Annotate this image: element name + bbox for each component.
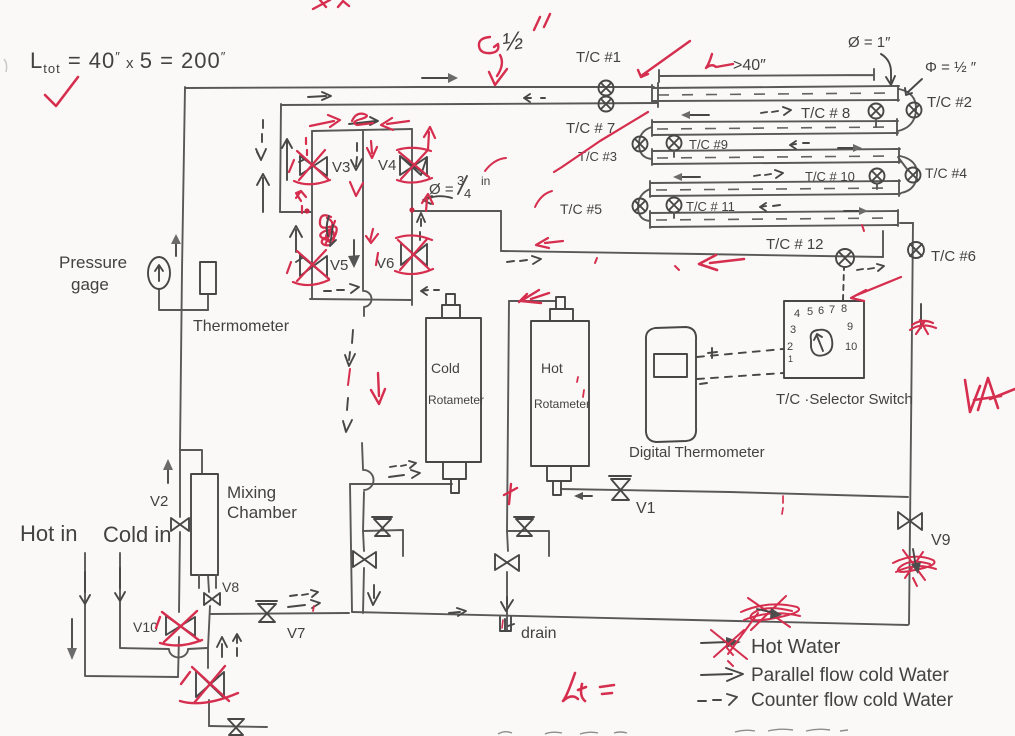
label Digital Thermometer (629, 444, 765, 461)
dashed link thermometer plus (697, 348, 783, 358)
red V mark center (350, 182, 363, 196)
svg-text:V10: V10 (133, 619, 158, 635)
heat exchanger tube 5 (650, 210, 898, 228)
svg-text:T/C #5: T/C #5 (560, 201, 602, 217)
red VA mark (965, 378, 1015, 412)
label drain (521, 625, 557, 642)
legend counter arrow dashed (698, 694, 737, 705)
valve V8 (204, 593, 220, 605)
legend parallel arrow (701, 668, 743, 681)
feed pipe arrow into tube1 (881, 54, 895, 85)
red tick below V1 line (782, 496, 783, 514)
red L of 40 inch (706, 54, 733, 68)
svg-text:8: 8 (841, 303, 847, 315)
arrow tube row2 right gray (838, 144, 862, 152)
U-bend right tube1-tube2 (898, 89, 916, 131)
svg-text:V8: V8 (222, 579, 239, 595)
svg-text:Rotameter: Rotameter (428, 393, 484, 407)
red up arrow right rail lower (422, 194, 433, 211)
wire manifold bottom (310, 299, 412, 300)
wire right main vertical (909, 223, 913, 624)
svg-text:4: 4 (794, 308, 800, 320)
wire thermometer stub (207, 294, 209, 310)
red tick V7 area none (313, 606, 314, 611)
arrow inner top flow right (308, 92, 331, 100)
legend label Parallel flow (751, 665, 949, 686)
wire bottom main horizontal (352, 612, 908, 625)
arrow tube row3 dashed right (754, 170, 783, 178)
valve V5 (296, 255, 327, 277)
arrow up small left of manifold (282, 139, 292, 180)
wire hot drain column (507, 301, 509, 630)
dashed link thermometer minus (697, 373, 783, 384)
wire manifold top (312, 129, 412, 131)
svg-text:>40″: >40″ (733, 57, 766, 74)
wire pressure gage link (159, 289, 208, 310)
valve below V10 crossed (196, 671, 224, 698)
svg-text:V1: V1 (636, 500, 656, 517)
thermocouple T/C #5 (633, 199, 648, 214)
legend label Counter flow (751, 690, 954, 711)
svg-text:T/C # 7: T/C # 7 (566, 120, 615, 137)
arrow tube row1 left gray (681, 111, 709, 119)
arrow tube row4 right gray (844, 207, 868, 215)
red scribble over V9 (893, 549, 936, 586)
svg-text:Hot in: Hot in (20, 521, 77, 546)
svg-text:Counter flow cold Water: Counter flow cold Water (751, 690, 954, 711)
svg-text:T/C #4: T/C #4 (925, 165, 967, 181)
red X over lower valve (180, 666, 238, 703)
wire V7 line (210, 613, 349, 614)
red coil scribble (320, 215, 337, 246)
svg-text:V3: V3 (332, 159, 350, 176)
thermocouple T/C #6 (908, 242, 924, 258)
thermocouple T/C #9 (667, 136, 682, 158)
U-bend left tube4-tube5 (638, 189, 650, 221)
label Thermometer (193, 318, 290, 335)
pressure gage (148, 257, 170, 289)
wire cold column lower (363, 531, 364, 613)
wire outer top horizontal (186, 87, 654, 88)
arrow head hot in (80, 572, 90, 604)
svg-text:Cold: Cold (431, 360, 460, 376)
red dashes left rail top (306, 138, 307, 155)
selector knob (811, 330, 833, 356)
red arc mid right (535, 191, 552, 207)
arrow right bottom main (449, 608, 466, 616)
svg-text:V4: V4 (378, 157, 396, 174)
label T/C #2 (927, 94, 972, 111)
label T/C #9 (689, 137, 728, 152)
left edge smudge (4, 59, 7, 72)
valve hot column (495, 554, 519, 571)
svg-text:2: 2 (787, 341, 793, 353)
arrow head cold in (115, 568, 125, 601)
svg-text:Parallel flow cold Water: Parallel flow cold Water (751, 665, 949, 686)
red slash near T/C 1 (638, 41, 690, 77)
wire manifold left rail (311, 131, 313, 299)
valve V7 (256, 601, 277, 622)
red half inch annotation (479, 14, 550, 85)
hot rotameter (531, 297, 589, 495)
red arrows manifold top (310, 114, 409, 130)
dashed arrow V7 (288, 590, 320, 608)
cold rotameter (426, 294, 481, 493)
svg-text:1: 1 (788, 354, 793, 364)
red dot mid return (675, 266, 679, 270)
red X marks top edge (313, 0, 349, 9)
valve V10 (166, 616, 195, 636)
svg-text:V7: V7 (287, 625, 305, 642)
arrow down center manifold top (351, 143, 362, 170)
wire manifold right rail (411, 129, 413, 305)
svg-text:4: 4 (464, 186, 471, 201)
wire return riser vertical (500, 211, 502, 251)
arrow tube row1 dashed right T/C 8 (761, 107, 791, 115)
label Mixing Chamber (227, 483, 297, 522)
wire inner left vertical (280, 104, 281, 212)
svg-text:T/C #2: T/C #2 (927, 94, 972, 111)
valve cold column (353, 551, 376, 568)
wire link to manifold (280, 211, 312, 213)
svg-text:V5: V5 (330, 257, 348, 274)
thermocouple T/C #1 (599, 81, 614, 96)
red X over V5 (287, 250, 329, 285)
svg-text:T/C #1: T/C #1 (576, 49, 621, 66)
dashed down arrows center column (343, 330, 355, 432)
label Cold in (103, 522, 171, 547)
arrow inner top flow left with dash (524, 94, 545, 102)
valve V2 (171, 518, 189, 531)
wire cold column branch (363, 530, 403, 556)
svg-text:Thermometer: Thermometer (193, 318, 290, 335)
dashed arrow manifold bottom (324, 284, 359, 293)
label T/C #3 (578, 149, 617, 164)
dimension line L=40 (659, 69, 874, 82)
wire hot in line (85, 553, 178, 677)
digital thermometer (646, 327, 696, 442)
svg-text:T/C # 12: T/C # 12 (766, 236, 824, 253)
arrow tube row2 left dashed (790, 141, 809, 149)
label T/C #10 (805, 169, 855, 184)
svg-text:3: 3 (790, 324, 796, 336)
valve V1 (609, 476, 631, 500)
red arc near return riser top (485, 158, 506, 171)
label diameter half inch (925, 59, 977, 76)
red scribble bottom line (741, 596, 800, 630)
dashed arrow below return line (507, 256, 541, 264)
arrow dashed down left of manifold (256, 120, 266, 160)
label V1 (636, 500, 656, 517)
red tick tube5 right (862, 225, 864, 231)
label V3 (332, 159, 350, 176)
selector dashed link to T/C 12 (843, 268, 844, 300)
svg-text:in: in (481, 174, 490, 188)
arrows up chamber outlet (217, 634, 241, 657)
dashed arrow right of T/C 12 (857, 264, 884, 271)
svg-text:Hot: Hot (541, 360, 563, 376)
red left arrow on return line big (699, 255, 744, 270)
red marks center column mid (366, 229, 378, 265)
wire bottom left stub (209, 726, 267, 727)
red check top left (45, 77, 78, 106)
label V6 (376, 255, 394, 272)
red X over V10 (156, 611, 202, 645)
label T/C #6 (931, 248, 976, 265)
svg-text:T/C # 10: T/C # 10 (805, 169, 855, 184)
label T/C #12 (766, 236, 824, 253)
thermocouple T/C #11 (667, 198, 682, 219)
red tick near return (595, 258, 597, 263)
wire manifold to return riser (412, 210, 501, 212)
arrow down cold column (368, 585, 380, 605)
U-bend right tube3-tube4 (900, 156, 917, 193)
label T/C #1 (576, 49, 621, 66)
label diameter 1 inch (848, 34, 891, 51)
svg-text:T/C # 8: T/C # 8 (801, 105, 850, 122)
arrow tube row4 left dashed (760, 203, 780, 211)
thermocouple T/C #2 (907, 103, 922, 118)
red up arrow right of V4 (424, 127, 435, 150)
red junction dots (304, 207, 414, 213)
red slash T/C 7 and 3 (554, 112, 648, 172)
arrow up main left line (171, 234, 181, 256)
label V10 (133, 619, 158, 635)
valve hot branch (514, 517, 534, 536)
svg-text:Rotameter: Rotameter (534, 397, 590, 411)
wire outer left vertical (180, 87, 185, 450)
arrow up left rail lower (290, 226, 302, 252)
heat exchanger tube 4 (650, 180, 900, 197)
wire cold loop top horizontal (350, 483, 452, 485)
arrow up chamber inlet (163, 459, 173, 483)
thermocouple T/C #10 (870, 169, 885, 190)
arrow down hot column (501, 597, 513, 611)
red tick left column (348, 369, 350, 385)
arrow left below V6 with dash (421, 287, 439, 295)
label Cold Rotameter (428, 360, 484, 407)
label Hot Rotameter (534, 360, 590, 411)
arrow tube row3 left gray (673, 173, 700, 181)
red arrow to selector box (851, 277, 901, 301)
wire V1 line (561, 489, 908, 497)
pointer to rail three quarter (423, 196, 452, 204)
label T/C #4 (925, 165, 967, 181)
wire hot rotameter inlet (509, 300, 556, 302)
red ticks in hot rotameter (577, 377, 584, 397)
label T/C #7 (566, 120, 615, 137)
wire tube5 outlet drop (882, 231, 884, 257)
drain fitting (500, 617, 514, 631)
thermocouple T/C #8 (869, 104, 884, 128)
wire cold loop left vertical (350, 484, 352, 612)
dashed arrow cold loop inlet (389, 461, 420, 478)
wire inner top horizontal (281, 103, 658, 105)
svg-text:drain: drain (521, 625, 557, 642)
svg-text:Digital Thermometer: Digital Thermometer (629, 444, 765, 461)
label V5 (330, 257, 348, 274)
red mark near hot column top (504, 484, 517, 504)
thermocouple T/C #3 (633, 137, 648, 152)
label T/C Selector Switch (776, 391, 913, 408)
wire main left lower through V2 V10 (178, 450, 180, 677)
valve V3 (299, 156, 327, 176)
wire cold in line with hop (120, 553, 207, 657)
legend label Hot Water (751, 636, 841, 658)
red arrow hot rotameter top (519, 290, 549, 303)
wire cold column upper with hop (362, 443, 374, 531)
label V7 (287, 625, 305, 642)
wire chamber inlet top (180, 450, 202, 474)
label Hot in (20, 521, 77, 546)
T/C selector switch box (784, 301, 864, 378)
svg-text:V2: V2 (150, 493, 168, 510)
red X over V3 (289, 150, 330, 184)
red X over V6 (395, 235, 433, 274)
svg-text:Chamber: Chamber (227, 503, 297, 522)
svg-text:Ø = 1″: Ø = 1″ (848, 34, 891, 51)
arrow top flow right (422, 73, 458, 83)
valve V4 (400, 156, 427, 176)
thermometer body (200, 262, 216, 294)
svg-text:½: ½ (500, 26, 525, 57)
label L greater 40 inch (733, 57, 766, 74)
label diameter three quarter (429, 173, 490, 201)
svg-text:T/C #6: T/C #6 (931, 248, 976, 265)
valve bottom edge (228, 719, 244, 735)
red left arrow above return line (536, 238, 563, 248)
label V9 (931, 532, 951, 549)
red slash through legend arrow (711, 613, 758, 666)
valve cold branch (372, 517, 392, 536)
thermocouple T/C #12 (836, 249, 854, 267)
arrow up big left of manifold (257, 174, 269, 212)
bottom cut text strokes (498, 729, 848, 734)
selector numbers (787, 303, 857, 364)
red X over V4 (397, 148, 432, 183)
legend hot water arrow (701, 637, 741, 648)
label T/C #8 (801, 105, 850, 122)
svg-text:6: 6 (818, 305, 824, 317)
svg-text:gage: gage (71, 275, 109, 294)
label Ltot formula (30, 48, 226, 76)
svg-text:T/C ·Selector Switch: T/C ·Selector Switch (776, 391, 913, 408)
red dashed up arrow left rail (296, 191, 306, 213)
arrow dashed up right rail (417, 213, 425, 240)
red Lt mark bottom (563, 673, 614, 701)
arrow selector red pointer dark mark (920, 304, 922, 328)
wire tube5 to right main corner (900, 222, 913, 224)
svg-text:7: 7 (829, 304, 835, 316)
svg-text:V9: V9 (931, 532, 951, 549)
svg-text:T/C # 11: T/C # 11 (686, 199, 735, 214)
wire chamber outlet column (208, 575, 210, 726)
svg-text:5: 5 (807, 306, 813, 318)
valve V6 (401, 243, 427, 266)
svg-text:Cold in: Cold in (103, 522, 171, 547)
svg-text:V6: V6 (376, 255, 394, 272)
heat exchanger tube 1 (652, 83, 899, 107)
valve V9 (898, 512, 922, 530)
label T/C #5 (560, 201, 602, 217)
wire return line horizontal (501, 251, 883, 257)
wire manifold center rail with hop (363, 131, 372, 316)
red scribble right main upper (910, 320, 936, 334)
svg-text:Hot Water: Hot Water (751, 636, 841, 658)
thermocouple T/C #4 (898, 157, 921, 183)
svg-text:Φ = ½ ″: Φ = ½ ″ (925, 59, 977, 76)
label T/C #11 (686, 199, 735, 214)
svg-text:Pressure: Pressure (59, 253, 127, 272)
red down arrow left of cold rotameter (371, 373, 385, 404)
arrow down hot in left (67, 619, 77, 660)
svg-text:10: 10 (845, 341, 857, 353)
red down arrow center top (367, 141, 377, 158)
svg-text:9: 9 (847, 321, 853, 333)
U-bend left tube2-tube3 (639, 127, 652, 159)
label V2 (150, 493, 168, 510)
heat exchanger tube 3 (652, 148, 900, 165)
heat exchanger tube 2 (652, 119, 898, 136)
pointer arrow phi half inch (905, 79, 922, 95)
svg-text:Mixing: Mixing (227, 483, 276, 502)
label V8 (222, 579, 239, 595)
arrow down center manifold big (348, 240, 360, 268)
label Pressure gage (59, 253, 127, 294)
label V4 (378, 157, 396, 174)
svg-text:T/C #9: T/C #9 (689, 137, 728, 152)
wire hot column branch (507, 531, 549, 556)
arrow left V1 line (574, 492, 592, 500)
mixing chamber (191, 474, 218, 588)
thermocouple T/C #7 (599, 97, 614, 112)
